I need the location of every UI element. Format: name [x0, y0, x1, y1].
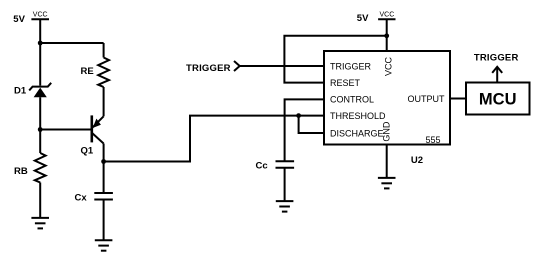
ground (under Cx) [95, 240, 113, 251]
capacitor Cc [276, 161, 295, 168]
wire: 555 GND pin lead [386, 145, 388, 178]
svg-text:RESET: RESET [330, 78, 361, 88]
svg-text:MCU: MCU [479, 90, 517, 108]
wire: node down to RB [39, 130, 41, 154]
wire: collector to threshold run [104, 116, 324, 162]
input port TRIGGER chevron [234, 61, 240, 71]
svg-text:VCC: VCC [380, 12, 395, 19]
node: rail junction [38, 41, 43, 46]
svg-text:555: 555 [425, 135, 440, 145]
svg-text:TRIGGER: TRIGGER [330, 61, 372, 71]
wire: collector node down to Cx [103, 162, 105, 194]
wire: RESET to 5V rail [284, 36, 386, 83]
svg-text:GND: GND [382, 121, 392, 142]
svg-text:RB: RB [14, 166, 28, 177]
svg-text:VCC: VCC [33, 12, 48, 19]
svg-text:TRIGGER: TRIGGER [186, 63, 231, 74]
power VCC symbol (left) [31, 19, 49, 43]
node: base junction [38, 127, 43, 132]
capacitor Cx [94, 193, 113, 200]
wire: trigger input to 555 [240, 65, 324, 67]
op 555 box U2 [324, 51, 450, 145]
svg-text:5V: 5V [357, 13, 369, 24]
wire: rail down to D1 [39, 43, 41, 86]
wire: base of Q1 to rail node [40, 129, 92, 131]
svg-text:DISCHARGE: DISCHARGE [330, 128, 384, 138]
svg-text:VCC: VCC [384, 56, 394, 76]
wire: Cx bottom lead [103, 200, 105, 240]
ground (under RB) [31, 218, 49, 229]
svg-text:Cc: Cc [256, 161, 268, 172]
wire: RE bottom lead to Q1 emitter [103, 87, 105, 116]
svg-text:5V: 5V [13, 14, 25, 25]
wire: RE top lead [103, 43, 105, 58]
wire: Cc bottom lead [284, 168, 286, 201]
wire: MCU trigger arrow [496, 68, 498, 83]
wire: 5V rail to RE [40, 42, 103, 44]
ground (under 555) [378, 178, 396, 189]
svg-text:D1: D1 [14, 86, 27, 97]
wire: Q1 collector lead [103, 144, 105, 162]
node: collector junction [101, 159, 106, 164]
wire: OUTPUT to MCU [450, 98, 466, 100]
zener diode D1 [29, 83, 51, 130]
wire: junction down to DISCHARGE pin [299, 116, 324, 133]
svg-text:Q1: Q1 [81, 146, 94, 157]
arrowhead trigger out [492, 67, 502, 73]
node: threshold/discharge junction [296, 113, 301, 118]
svg-text:TRIGGER: TRIGGER [474, 53, 519, 64]
svg-text:OUTPUT: OUTPUT [408, 94, 446, 104]
wire: RB bottom lead [39, 183, 41, 218]
transistor Q1 [92, 115, 104, 143]
power VCC symbol (right) [378, 19, 395, 36]
resistor RE [98, 58, 109, 88]
wire: vcc node down to 555 VCC pin [386, 36, 388, 51]
node: vcc junction [384, 33, 389, 38]
svg-text:THRESHOLD: THRESHOLD [330, 111, 386, 121]
ground (under Cc) [276, 201, 294, 212]
svg-text:RE: RE [81, 66, 94, 77]
svg-text:CONTROL: CONTROL [330, 95, 374, 105]
resistor RB [35, 153, 46, 183]
wire: CONTROL to Cc [285, 99, 324, 161]
svg-text:Cx: Cx [75, 193, 88, 204]
block MCU [466, 83, 530, 115]
svg-text:U2: U2 [411, 155, 423, 166]
